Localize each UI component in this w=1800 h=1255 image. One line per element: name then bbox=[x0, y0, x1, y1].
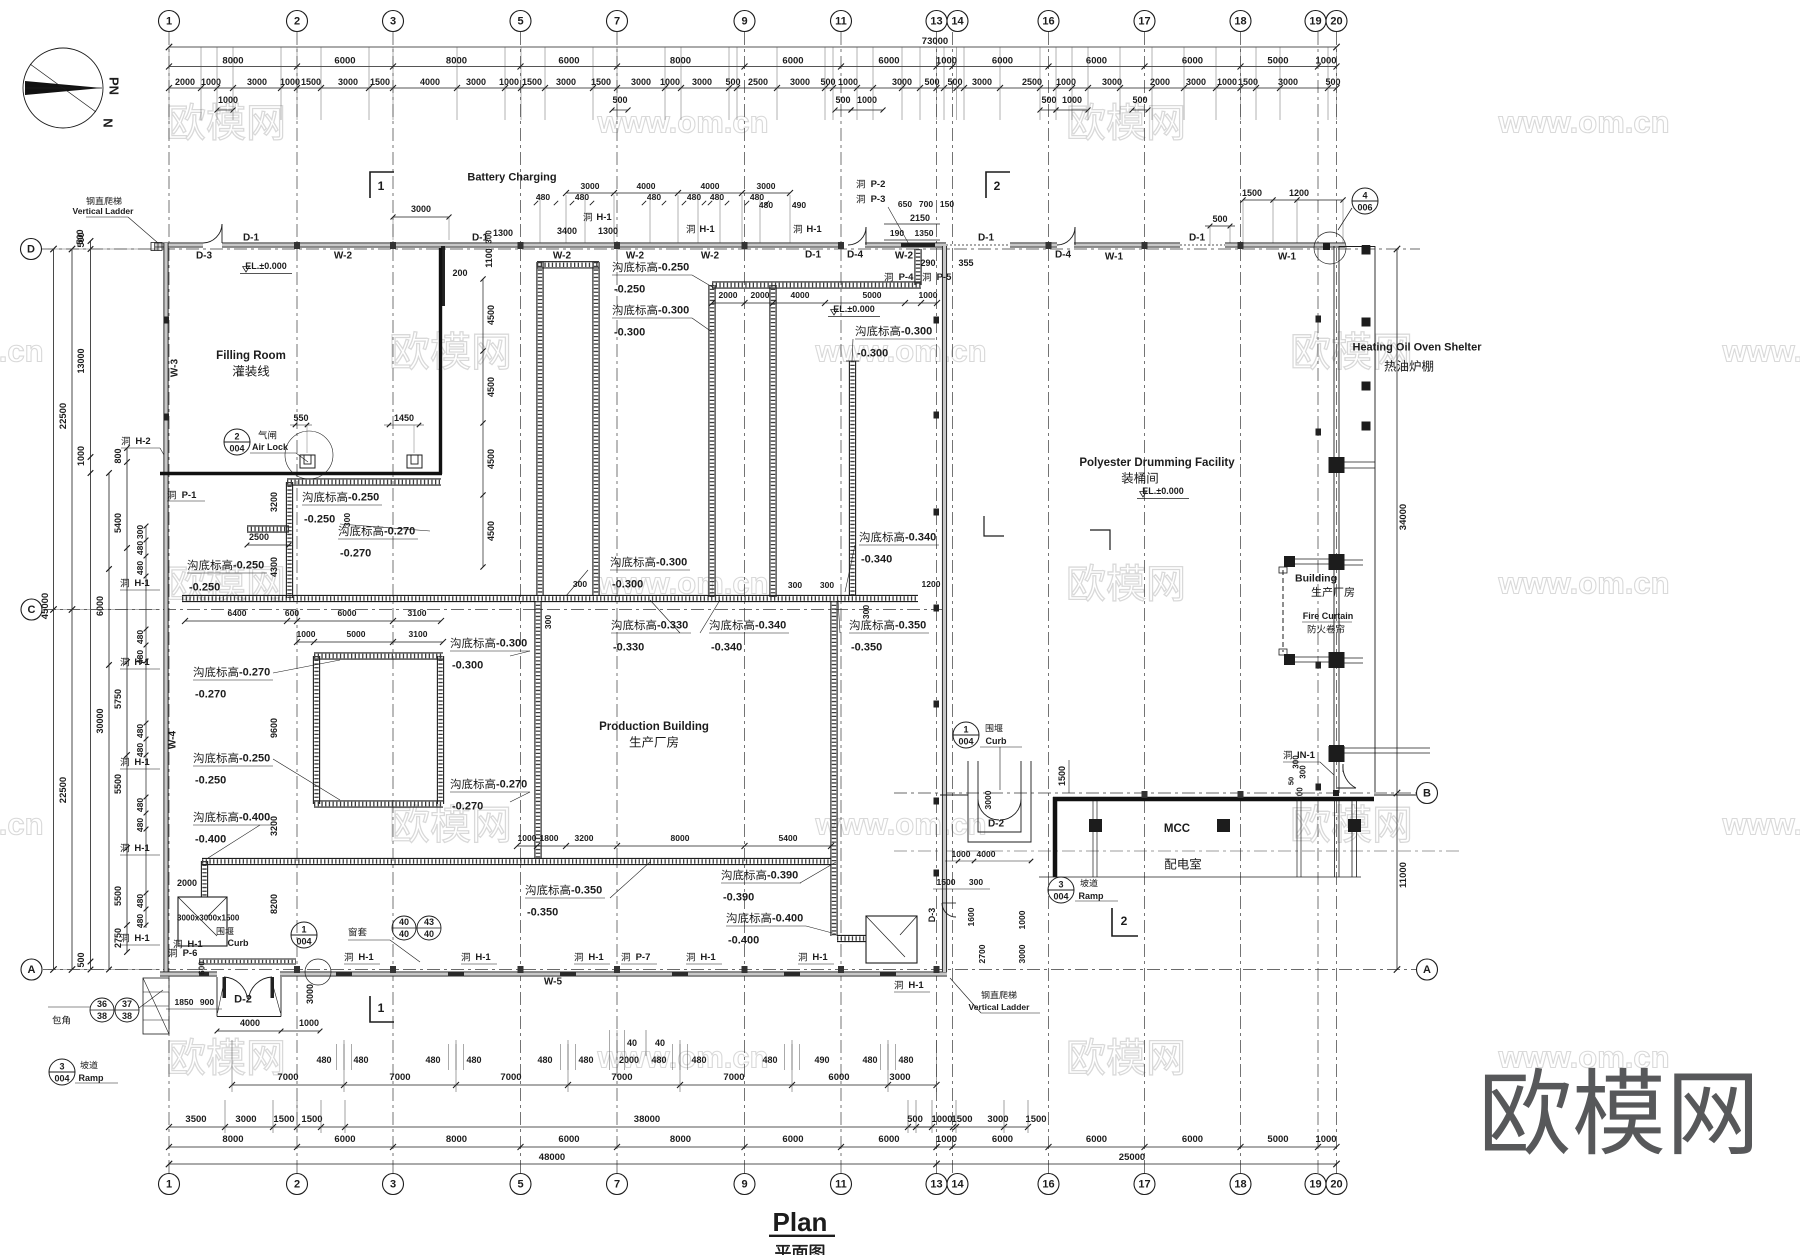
svg-text:2500: 2500 bbox=[249, 532, 269, 542]
svg-text:6000: 6000 bbox=[992, 56, 1013, 67]
svg-text:1500: 1500 bbox=[591, 77, 611, 87]
label window sleeve bbox=[349, 927, 367, 936]
svg-text:Plan: Plan bbox=[773, 1207, 828, 1237]
grid bubble 2 top bbox=[287, 11, 308, 32]
svg-text:W-2: W-2 bbox=[334, 250, 353, 261]
svg-text:1000: 1000 bbox=[838, 77, 858, 87]
trench bottom long horizontal bbox=[202, 857, 831, 859]
battery dim row 3000/4000/4000/3000 bbox=[566, 192, 790, 194]
svg-text:-0.250: -0.250 bbox=[239, 753, 270, 765]
section marker 2 top bbox=[986, 172, 1010, 198]
right dim 11000 bbox=[1396, 793, 1398, 970]
svg-text:www.om.cn: www.om.cn bbox=[1721, 807, 1800, 842]
left extension lines bbox=[48, 248, 160, 250]
svg-text:7000: 7000 bbox=[277, 1072, 298, 1083]
svg-text:-0.270: -0.270 bbox=[496, 779, 527, 791]
svg-text:3000: 3000 bbox=[1017, 944, 1027, 963]
svg-text:-0.250: -0.250 bbox=[658, 262, 689, 274]
svg-text:7: 7 bbox=[614, 16, 620, 28]
svg-text:480: 480 bbox=[135, 724, 145, 738]
svg-text:500: 500 bbox=[76, 952, 86, 967]
svg-text:480: 480 bbox=[575, 192, 589, 202]
left dim 22500 pair bbox=[71, 249, 73, 970]
MCC partition right bbox=[1296, 801, 1298, 877]
svg-text:3000: 3000 bbox=[305, 984, 315, 1004]
svg-text:14: 14 bbox=[951, 1179, 964, 1191]
svg-text:3200: 3200 bbox=[575, 833, 594, 843]
grid column line 18 bbox=[1240, 32, 1242, 1174]
svg-text:MCC: MCC bbox=[1164, 823, 1190, 835]
label trench level -0.270 bbox=[193, 667, 238, 678]
svg-text:3200: 3200 bbox=[269, 816, 279, 836]
grid bubble 11 top bbox=[831, 11, 852, 32]
svg-text:6000: 6000 bbox=[558, 1134, 579, 1145]
svg-text:9: 9 bbox=[741, 1179, 747, 1191]
svg-text:18: 18 bbox=[1234, 1179, 1246, 1191]
svg-text:-0.250: -0.250 bbox=[233, 560, 264, 572]
small column mark on B wall col20 bbox=[1333, 790, 1339, 796]
svg-text:1000: 1000 bbox=[1017, 910, 1027, 929]
left dim chain 6000/30000 bbox=[108, 473, 110, 970]
svg-text:PN: PN bbox=[107, 77, 122, 95]
svg-text:-0.300: -0.300 bbox=[857, 348, 888, 360]
svg-text:300: 300 bbox=[135, 525, 145, 539]
svg-text:-0.250: -0.250 bbox=[304, 514, 335, 526]
svg-text:-0.300: -0.300 bbox=[612, 579, 643, 591]
svg-text:3100: 3100 bbox=[408, 608, 427, 618]
svg-text:1100: 1100 bbox=[484, 248, 494, 268]
svg-text:1000: 1000 bbox=[931, 1114, 952, 1125]
svg-text:2000: 2000 bbox=[1150, 77, 1170, 87]
svg-text:-0.250: -0.250 bbox=[195, 775, 226, 787]
svg-text:600: 600 bbox=[285, 608, 299, 618]
grid bubble 7 bottom bbox=[607, 1174, 628, 1195]
svg-text:-0.270: -0.270 bbox=[239, 667, 270, 679]
column marks on top wall bbox=[294, 242, 300, 249]
svg-text:480: 480 bbox=[353, 1055, 368, 1065]
svg-text:-0.330: -0.330 bbox=[613, 642, 644, 654]
svg-text:150: 150 bbox=[940, 199, 954, 209]
svg-text:37: 37 bbox=[122, 999, 132, 1009]
svg-text:Battery Charging: Battery Charging bbox=[467, 172, 556, 184]
label trench level -0.350 bbox=[849, 620, 894, 631]
svg-text:7: 7 bbox=[614, 1179, 620, 1191]
grid column line 14 bbox=[952, 32, 954, 1174]
svg-text:1000: 1000 bbox=[218, 95, 238, 105]
svg-text:Building: Building bbox=[1295, 573, 1337, 585]
svg-text:6000: 6000 bbox=[558, 56, 579, 67]
svg-text:34000: 34000 bbox=[1398, 504, 1409, 530]
oven shelter column ties bbox=[1344, 461, 1375, 463]
svg-text:W-4: W-4 bbox=[167, 731, 178, 750]
ladder symbol top-left corner bbox=[151, 243, 162, 251]
grid column line 2 bbox=[296, 32, 298, 1174]
svg-text:004: 004 bbox=[54, 1074, 69, 1084]
label EL top left + triangle bbox=[243, 266, 250, 272]
svg-text:2: 2 bbox=[294, 16, 300, 28]
curb detail 1/004 + labels bbox=[291, 922, 317, 948]
svg-text:1350: 1350 bbox=[915, 228, 934, 238]
svg-text:6000: 6000 bbox=[782, 1134, 803, 1145]
oven shelter big columns on wall bbox=[1329, 457, 1345, 473]
svg-text:B: B bbox=[1423, 788, 1431, 800]
label trench level -0.300 bbox=[855, 326, 900, 337]
column marks on bottom wall bbox=[294, 966, 300, 973]
svg-text:1500: 1500 bbox=[370, 77, 390, 87]
MCC top thick wall bbox=[1053, 797, 1374, 802]
svg-text:500: 500 bbox=[924, 77, 939, 87]
svg-text:14: 14 bbox=[951, 16, 964, 28]
svg-text:4000: 4000 bbox=[420, 77, 440, 87]
left dim chain 500/13000/1000 bbox=[90, 241, 92, 970]
MCC left thick wall bbox=[1053, 797, 1058, 877]
svg-text:5000: 5000 bbox=[1267, 1134, 1288, 1145]
svg-text:3000: 3000 bbox=[411, 204, 431, 214]
door D-3 top left bbox=[203, 224, 222, 243]
svg-text:1500: 1500 bbox=[273, 1114, 294, 1125]
svg-text:N: N bbox=[101, 118, 116, 127]
grid bubble D left bbox=[21, 239, 42, 260]
MCC bottom line bbox=[1039, 876, 1361, 878]
svg-text:16: 16 bbox=[1042, 1179, 1054, 1191]
svg-text:1200: 1200 bbox=[922, 579, 941, 589]
svg-text:550: 550 bbox=[293, 413, 308, 423]
svg-text:1000: 1000 bbox=[1217, 77, 1237, 87]
svg-text:40: 40 bbox=[399, 917, 409, 927]
svg-text:-0.250: -0.250 bbox=[348, 492, 379, 504]
trench T2 vertical bbox=[708, 285, 710, 597]
svg-text:11000: 11000 bbox=[1398, 862, 1409, 888]
grid bubble A right bbox=[1417, 959, 1438, 980]
svg-text:P-7: P-7 bbox=[636, 952, 651, 963]
svg-text:H-1: H-1 bbox=[134, 843, 150, 854]
svg-text:1: 1 bbox=[301, 925, 306, 935]
svg-text:20: 20 bbox=[1330, 16, 1342, 28]
door D-3 right wall bbox=[942, 903, 956, 917]
svg-text:H-1: H-1 bbox=[812, 952, 828, 963]
svg-text:300: 300 bbox=[485, 230, 494, 244]
svg-text:1: 1 bbox=[166, 16, 172, 28]
svg-text:W-5: W-5 bbox=[544, 976, 563, 987]
svg-text:-0.250: -0.250 bbox=[614, 284, 645, 296]
svg-text:3000: 3000 bbox=[889, 1072, 910, 1083]
grid column line 17 bbox=[1144, 32, 1146, 1174]
corner detail circles 36/38 37/38 bbox=[90, 998, 114, 1022]
svg-text:-0.390: -0.390 bbox=[767, 870, 798, 882]
svg-text:2700: 2700 bbox=[977, 944, 987, 963]
svg-text:19: 19 bbox=[1309, 1179, 1321, 1191]
svg-text:1: 1 bbox=[378, 179, 385, 193]
MCC right wall bbox=[1351, 801, 1353, 877]
svg-text:200: 200 bbox=[1296, 787, 1305, 801]
svg-text:3400: 3400 bbox=[557, 226, 577, 236]
svg-text:300: 300 bbox=[573, 579, 587, 589]
svg-text:-0.300: -0.300 bbox=[614, 327, 645, 339]
svg-text:004: 004 bbox=[958, 737, 973, 747]
svg-text:500: 500 bbox=[835, 95, 850, 105]
svg-text:-0.300: -0.300 bbox=[658, 305, 689, 317]
svg-text:480: 480 bbox=[862, 1055, 877, 1065]
svg-text:5: 5 bbox=[517, 16, 523, 28]
ladder label right bbox=[981, 991, 1016, 999]
svg-text:-0.350: -0.350 bbox=[851, 642, 882, 654]
svg-text:3: 3 bbox=[1058, 880, 1063, 890]
svg-text:1000: 1000 bbox=[952, 849, 971, 859]
svg-text:290: 290 bbox=[920, 258, 935, 268]
svg-text:480: 480 bbox=[578, 1055, 593, 1065]
svg-text:480: 480 bbox=[691, 1055, 706, 1065]
section marker 2 bottom bbox=[1112, 908, 1138, 936]
big column at B col19 bbox=[1329, 745, 1344, 760]
bottom dim row right 500/1000/1500/3000/1500 bbox=[908, 1126, 1028, 1128]
grid bubble 19 top bbox=[1305, 11, 1326, 32]
svg-text:5: 5 bbox=[517, 1179, 523, 1191]
right top dim 1500/1200 bbox=[1243, 199, 1343, 201]
svg-text:480: 480 bbox=[759, 200, 773, 210]
svg-text:1500: 1500 bbox=[1238, 77, 1258, 87]
svg-text:8000: 8000 bbox=[670, 1134, 691, 1145]
svg-text:Polyester Drumming Facility: Polyester Drumming Facility bbox=[1079, 457, 1235, 469]
grid column line 20 bbox=[1336, 32, 1338, 1174]
svg-text:25000: 25000 bbox=[1119, 1152, 1145, 1163]
svg-text:W-1: W-1 bbox=[1278, 251, 1297, 262]
grid bubble 20 top bbox=[1326, 11, 1347, 32]
svg-text:480: 480 bbox=[762, 1055, 777, 1065]
label trench level -0.250 bbox=[612, 262, 657, 273]
svg-text:190: 190 bbox=[890, 228, 904, 238]
svg-text:300: 300 bbox=[969, 877, 983, 887]
svg-text:www.om.cn: www.om.cn bbox=[814, 807, 986, 842]
D-2 right vestibule bbox=[968, 761, 1031, 842]
equipment pit right bbox=[866, 916, 917, 963]
svg-text:D-1: D-1 bbox=[1189, 232, 1206, 243]
svg-text:200: 200 bbox=[452, 268, 467, 278]
door D-4 top #1 bbox=[848, 227, 866, 245]
grid column line 16 bbox=[1048, 32, 1050, 1174]
svg-text:6000: 6000 bbox=[828, 1072, 849, 1083]
detail circles 40/40 43/40 bbox=[392, 916, 416, 940]
svg-text:-0.340: -0.340 bbox=[861, 554, 892, 566]
label trench level -0.340 bbox=[709, 620, 754, 631]
ramp detail 3/004 right bbox=[1048, 877, 1074, 903]
svg-text:500: 500 bbox=[1325, 77, 1340, 87]
svg-text:500: 500 bbox=[1212, 214, 1227, 224]
svg-text:300: 300 bbox=[1292, 755, 1301, 769]
svg-text:H-1: H-1 bbox=[700, 952, 716, 963]
svg-text:6000: 6000 bbox=[338, 608, 357, 618]
grid bubble 18 top bbox=[1230, 11, 1251, 32]
svg-text:1000: 1000 bbox=[499, 77, 519, 87]
svg-text:1500: 1500 bbox=[937, 877, 956, 887]
svg-text:650: 650 bbox=[898, 199, 912, 209]
svg-text:-0.340: -0.340 bbox=[905, 532, 936, 544]
svg-text:-0.270: -0.270 bbox=[340, 548, 371, 560]
wall oven shelter left (col20) bbox=[1333, 246, 1335, 793]
svg-text:480: 480 bbox=[687, 192, 701, 202]
label trench level -0.330 bbox=[611, 620, 656, 631]
svg-text:3500: 3500 bbox=[185, 1114, 206, 1125]
grid bubble 16 bottom bbox=[1038, 1174, 1059, 1195]
svg-text:73000: 73000 bbox=[922, 36, 948, 47]
svg-text:EL.±0.000: EL.±0.000 bbox=[1142, 486, 1183, 496]
leader lines for trench labels bbox=[692, 275, 714, 288]
svg-text:W-2: W-2 bbox=[626, 250, 645, 261]
svg-text:-0.300: -0.300 bbox=[901, 326, 932, 338]
corner marks polyester bbox=[984, 516, 1004, 536]
grid row B bbox=[894, 792, 1416, 794]
svg-text:480: 480 bbox=[537, 1055, 552, 1065]
svg-text:1200: 1200 bbox=[1289, 188, 1309, 198]
bottom wall hole labels bbox=[344, 953, 352, 962]
svg-text:www.om.cn: www.om.cn bbox=[0, 807, 44, 842]
svg-text:480: 480 bbox=[135, 914, 145, 928]
grid row A bbox=[43, 969, 1416, 971]
svg-text:P-2: P-2 bbox=[871, 179, 886, 190]
svg-text:6000: 6000 bbox=[1086, 1134, 1107, 1145]
door D-2 bottom double leaves bbox=[223, 977, 227, 998]
svg-text:600: 600 bbox=[198, 961, 207, 975]
svg-text:3000x3000x1500: 3000x3000x1500 bbox=[177, 914, 240, 923]
wall left exterior bbox=[164, 243, 168, 972]
svg-text:300: 300 bbox=[788, 580, 802, 590]
oven shelter small columns right bbox=[1362, 246, 1371, 255]
bottom-left stair symbol bbox=[143, 978, 169, 1034]
grid bubble A left bbox=[21, 959, 42, 980]
battery 480 tick line bbox=[534, 201, 538, 205]
svg-text:4000: 4000 bbox=[637, 181, 656, 191]
svg-text:3: 3 bbox=[390, 16, 396, 28]
trench T7 vertical x834 bbox=[830, 601, 832, 936]
svg-text:3000: 3000 bbox=[757, 181, 776, 191]
svg-text:3000: 3000 bbox=[972, 77, 992, 87]
wall top exterior bbox=[155, 243, 203, 247]
svg-text:www.om.cn: www.om.cn bbox=[0, 334, 44, 369]
svg-text:W-1: W-1 bbox=[1105, 251, 1124, 262]
svg-text:1850: 1850 bbox=[175, 997, 194, 1007]
grid column line 5 bbox=[520, 32, 522, 1174]
svg-text:Curb: Curb bbox=[986, 736, 1007, 746]
svg-text:6000: 6000 bbox=[878, 56, 899, 67]
svg-text:8200: 8200 bbox=[269, 894, 279, 914]
svg-text:1000: 1000 bbox=[660, 77, 680, 87]
svg-text:9: 9 bbox=[741, 16, 747, 28]
bottom dim total 25000 bbox=[937, 1163, 1337, 1165]
extension lines for 38000 row bbox=[224, 1100, 226, 1133]
svg-text:490: 490 bbox=[792, 200, 806, 210]
D-2 vestibule bbox=[216, 977, 218, 1017]
svg-text:480: 480 bbox=[135, 818, 145, 832]
svg-text:17: 17 bbox=[1138, 1179, 1150, 1191]
svg-text:004: 004 bbox=[229, 444, 244, 454]
svg-text:H-1: H-1 bbox=[699, 224, 715, 235]
svg-text:1500: 1500 bbox=[1025, 1114, 1046, 1125]
svg-text:1000: 1000 bbox=[919, 290, 938, 300]
svg-text:1000: 1000 bbox=[936, 1134, 957, 1145]
svg-text:3100: 3100 bbox=[409, 629, 428, 639]
svg-text:22500: 22500 bbox=[58, 777, 69, 803]
svg-text:6000: 6000 bbox=[782, 56, 803, 67]
labels hole P-2 P-3 bbox=[856, 180, 864, 189]
label trench level -0.350 bbox=[525, 885, 570, 896]
svg-text:2: 2 bbox=[234, 432, 239, 442]
svg-text:50: 50 bbox=[1287, 777, 1296, 785]
svg-text:17: 17 bbox=[1138, 16, 1150, 28]
svg-text:6000: 6000 bbox=[1086, 56, 1107, 67]
svg-text:4300: 4300 bbox=[269, 557, 279, 577]
svg-text:D-2: D-2 bbox=[988, 818, 1005, 829]
svg-text:1000: 1000 bbox=[76, 446, 86, 466]
fire curtain dashed line bbox=[1282, 570, 1284, 652]
svg-text:5000: 5000 bbox=[1267, 56, 1288, 67]
dim row 1000/5000/3100 bbox=[297, 641, 443, 643]
svg-text:Heating Oil Oven Shelter: Heating Oil Oven Shelter bbox=[1353, 342, 1483, 354]
grid bubble 9 bottom bbox=[734, 1174, 755, 1195]
grid column line 9 bbox=[744, 32, 746, 1174]
air lock detail circle 2/004 bbox=[224, 429, 250, 455]
svg-text:www.om.cn: www.om.cn bbox=[1721, 334, 1800, 369]
svg-text:H-1: H-1 bbox=[134, 657, 150, 668]
svg-text:30000: 30000 bbox=[95, 708, 105, 733]
svg-text:48000: 48000 bbox=[539, 1152, 565, 1163]
svg-text:500: 500 bbox=[612, 95, 627, 105]
svg-text:8000: 8000 bbox=[222, 1134, 243, 1145]
wall lintel dark segment near col13 bbox=[901, 243, 935, 248]
grid column line 11 bbox=[840, 32, 842, 1174]
svg-text:480: 480 bbox=[135, 561, 145, 575]
bottom dim row 3500/3000/1500/1500/38000 bbox=[169, 1126, 953, 1128]
Filling Room thick wall bottom bbox=[160, 472, 442, 475]
svg-text:5000: 5000 bbox=[347, 629, 366, 639]
svg-text:-0.340: -0.340 bbox=[711, 642, 742, 654]
left dim 480 chain bbox=[145, 526, 147, 928]
svg-text:6000: 6000 bbox=[1182, 1134, 1203, 1145]
svg-text:1000: 1000 bbox=[201, 77, 221, 87]
svg-text:500: 500 bbox=[907, 1114, 923, 1125]
svg-text:H-1: H-1 bbox=[588, 952, 604, 963]
svg-text:4000: 4000 bbox=[977, 849, 996, 859]
svg-text:4000: 4000 bbox=[791, 290, 810, 300]
svg-text:18: 18 bbox=[1234, 16, 1246, 28]
grid bubble 17 top bbox=[1134, 11, 1155, 32]
svg-text:-0.250: -0.250 bbox=[189, 582, 220, 594]
EL marker polyester bbox=[1140, 491, 1147, 497]
svg-text:D-1: D-1 bbox=[805, 249, 822, 260]
svg-text:1500: 1500 bbox=[1057, 766, 1067, 786]
svg-text:3000: 3000 bbox=[1186, 77, 1206, 87]
svg-text:3000: 3000 bbox=[556, 77, 576, 87]
grid bubble 18 bottom bbox=[1230, 1174, 1251, 1195]
svg-text:6400: 6400 bbox=[228, 608, 247, 618]
right dim 34000 bbox=[1396, 249, 1398, 793]
svg-text:7000: 7000 bbox=[389, 1072, 410, 1083]
svg-text:-0.300: -0.300 bbox=[452, 660, 483, 672]
svg-text:-0.300: -0.300 bbox=[656, 557, 687, 569]
svg-text:6000: 6000 bbox=[878, 1134, 899, 1145]
svg-text:2000: 2000 bbox=[751, 290, 770, 300]
MCC inner partition bbox=[1092, 801, 1094, 877]
svg-text:2: 2 bbox=[994, 179, 1001, 193]
svg-text:5400: 5400 bbox=[779, 833, 798, 843]
trench T8 stub to pit bbox=[837, 934, 866, 936]
oven shelter right boundary bbox=[1374, 246, 1376, 792]
grid bubble 3 bottom bbox=[383, 1174, 404, 1195]
svg-text:500: 500 bbox=[75, 229, 85, 244]
svg-text:EL.±0.000: EL.±0.000 bbox=[245, 261, 286, 271]
label trench level -0.300 bbox=[610, 557, 655, 568]
wall stud marks col13/14 and col19 and left wall bbox=[934, 317, 940, 324]
svg-text:500: 500 bbox=[725, 77, 740, 87]
grid column line 7 bbox=[616, 32, 618, 1174]
